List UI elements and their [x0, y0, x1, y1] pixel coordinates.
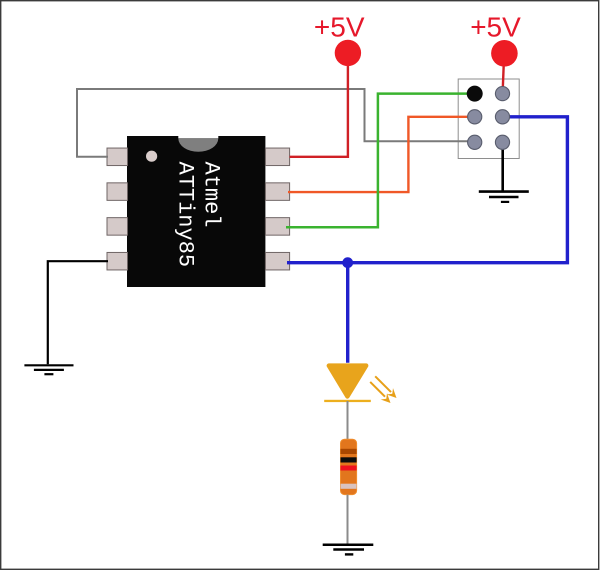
header pin hole VCC — [495, 87, 509, 101]
header pin hole GND — [495, 135, 509, 149]
resistor R1 band 1 — [341, 449, 357, 454]
LED light arrow 1 — [375, 376, 396, 398]
svg-text:+5V: +5V — [470, 12, 521, 43]
pin 6 of U1 — [265, 218, 289, 236]
pin 2 of U1 — [107, 183, 128, 201]
wire black header GND pin down — [501, 142, 504, 191]
header pin hole MOSI — [468, 110, 482, 124]
header pin hole 1 black — [467, 86, 483, 102]
wire green pin6 MISO to header — [286, 94, 475, 228]
resistor R1 band 3 — [341, 466, 357, 471]
wire red +5V right to header VCC pin — [503, 60, 504, 94]
svg-text:+5V: +5V — [314, 12, 365, 43]
wire blue pin5 SCK net to header and LED — [287, 117, 567, 363]
resistor R1 band 4 — [341, 484, 357, 489]
wire gray resistor to ground — [347, 495, 349, 544]
node +5V left — [314, 12, 365, 67]
header pin hole RESET — [468, 135, 482, 149]
connector J1 ISP header outline — [458, 79, 519, 159]
ground symbol bottom — [323, 545, 374, 555]
header pin hole SCK — [495, 110, 509, 124]
svg-text:Atmel: Atmel — [199, 162, 224, 228]
LED D1 cathode bar — [324, 400, 371, 402]
wire gray LED to resistor — [347, 401, 349, 440]
resistor R1 body — [341, 439, 357, 494]
svg-text:ATTiny85: ATTiny85 — [172, 162, 197, 268]
wire red +5V to pin 8 VCC — [290, 60, 348, 157]
wire gray pin1 RESET to header pin 5 — [77, 89, 475, 157]
pin 4 of U1 — [107, 252, 128, 270]
ground symbol header — [479, 192, 529, 202]
pin 5 of U1 — [265, 252, 289, 270]
pin 7 of U1 — [265, 183, 289, 201]
node +5V right — [470, 12, 521, 67]
junction blue node — [342, 257, 353, 268]
ground symbol left — [24, 365, 73, 374]
pin 8 of U1 — [265, 148, 289, 166]
wire orange pin7 MOSI to header — [288, 117, 475, 192]
wire black pin 4 GND — [48, 261, 108, 364]
resistor R1 band 2 — [341, 457, 357, 462]
IC U1 ATtiny85 — [127, 136, 265, 287]
LED D1 triangle — [329, 366, 366, 397]
pin 3 of U1 — [107, 218, 128, 236]
pin 1 of U1 — [107, 148, 128, 166]
LED light arrow 2 — [370, 382, 390, 403]
